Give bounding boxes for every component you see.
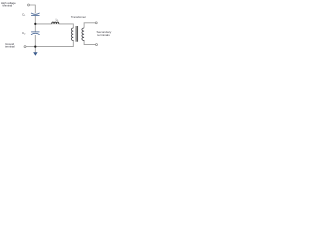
svg-text:C2: C2 <box>22 31 26 36</box>
svg-text:C1: C1 <box>22 13 26 18</box>
svg-text:L1: L1 <box>56 17 60 22</box>
svg-text:terminal: terminal <box>3 4 13 8</box>
svg-text:terminals: terminals <box>97 33 110 37</box>
svg-text:Transformer: Transformer <box>71 15 86 19</box>
svg-text:terminal: terminal <box>5 45 15 49</box>
